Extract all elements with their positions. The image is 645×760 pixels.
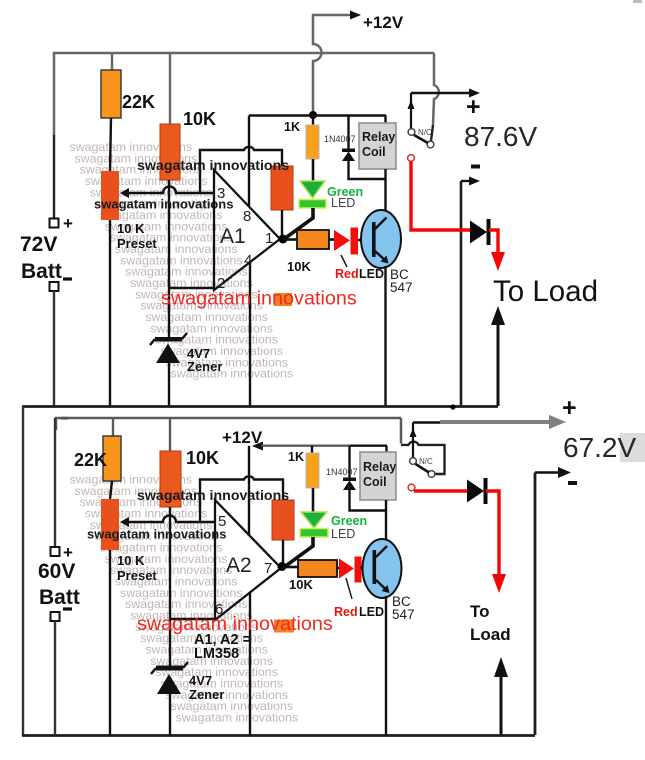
diode series (top) <box>470 221 487 244</box>
resistor 10K vertical (top) <box>160 124 180 180</box>
svg-text:swagatam innovations: swagatam innovations <box>137 158 289 174</box>
load return up arrow (bottom) <box>500 676 503 735</box>
svg-text:+: + <box>562 394 577 422</box>
svg-text:547: 547 <box>392 607 415 622</box>
N/C contact circle <box>408 129 415 136</box>
wire +12V feed with hop over supply rail <box>313 15 352 111</box>
wire minus output down to ground rail <box>460 181 463 406</box>
wire op-amp A1 pin 8 <box>248 116 250 207</box>
resistor 22K (bottom) lead <box>112 418 114 436</box>
svg-text:N/C: N/C <box>418 128 432 137</box>
svg-text:swagatam innovations: swagatam innovations <box>137 488 289 504</box>
svg-text:A1: A1 <box>220 225 246 248</box>
bottom box left edge <box>22 406 24 736</box>
relay coil RL1 (top) <box>384 116 386 124</box>
svg-text:Coil: Coil <box>363 475 387 489</box>
svg-text:Red: Red <box>335 267 359 281</box>
wire emitter to ground rail (bottom) <box>385 596 387 735</box>
resistor 10K base (bottom) <box>282 566 298 569</box>
wire op-amp A1 pin 4 to ground <box>249 262 251 406</box>
minus output (bottom) <box>535 471 559 474</box>
+12V feed arrow (bottom, pointing left) <box>252 442 263 451</box>
svg-text:To Load: To Load <box>493 275 598 308</box>
svg-text:LM358: LM358 <box>194 646 239 662</box>
resistor 10K vertical (top) lead <box>169 53 171 124</box>
wire preset bottom to ground rail <box>109 220 111 406</box>
resistor 1K (top) <box>312 115 314 125</box>
load return up arrow (top) <box>497 324 500 406</box>
ground rail (top circuit) <box>22 405 498 408</box>
wire relay pole from batt+ with hop <box>433 53 439 125</box>
transistor Q1 BC547 <box>361 210 401 268</box>
svg-text:22K: 22K <box>74 450 107 470</box>
relay armature (bottom) <box>416 464 430 473</box>
svg-text:Batt: Batt <box>21 260 62 283</box>
svg-text:10K: 10K <box>287 259 311 274</box>
node: op-amp A2 output junction <box>278 562 287 571</box>
op-amp A2 <box>215 500 281 620</box>
svg-text:Relay: Relay <box>362 130 395 144</box>
grey box behind 67.2V <box>620 433 645 462</box>
wire minus output down to ground rail (bottom) <box>534 473 537 736</box>
resistor 22K (top) <box>101 70 121 118</box>
wire N/C contact up to + output <box>410 93 412 129</box>
svg-text:To: To <box>470 602 490 621</box>
wire pin2 to reference node <box>169 287 214 289</box>
wire + output (bottom) grey arrow <box>413 421 440 423</box>
svg-text:10K: 10K <box>289 577 313 592</box>
svg-text:Preset: Preset <box>117 568 157 583</box>
svg-text:1K: 1K <box>288 450 304 464</box>
wire relay pole (bottom) from batt+ with hop <box>400 418 403 444</box>
svg-text:10K: 10K <box>186 448 219 468</box>
pointer line to Red LED label (bottom) <box>346 578 352 599</box>
svg-text:87.6V: 87.6V <box>464 121 537 152</box>
zener diode 4V7 (bottom) <box>151 662 188 735</box>
preset 10K (top) <box>101 171 119 220</box>
wire batt2 + top edge <box>56 418 401 430</box>
battery B2 + terminal <box>51 547 60 556</box>
svg-text:swagatam innovations: swagatam innovations <box>176 710 299 724</box>
wire pin5 to preset wiper with hop <box>128 516 215 523</box>
svg-text:swagatam innovations: swagatam innovations <box>87 527 226 542</box>
svg-text:Coil: Coil <box>362 145 386 159</box>
wire pin3 to preset wiper with hop <box>128 187 214 194</box>
orange highlight block (top) <box>274 293 292 306</box>
N/C contact circle (bottom) <box>410 458 417 465</box>
battery B1 - terminal <box>50 282 59 291</box>
transistor Q2 BC547 <box>363 539 402 598</box>
resistor feedback (top) <box>271 166 293 210</box>
svg-text:swagatam innovations: swagatam innovations <box>94 197 233 212</box>
svg-text:+: + <box>466 93 481 121</box>
svg-text:10 K: 10 K <box>117 221 145 236</box>
preset 10K (bottom) <box>101 499 119 550</box>
resistor feedback (bottom) <box>272 500 294 540</box>
svg-text:7: 7 <box>264 560 272 577</box>
wire N/O to load (red, top) <box>411 162 470 231</box>
svg-text:22K: 22K <box>122 92 155 112</box>
svg-text:Zener: Zener <box>189 687 224 702</box>
svg-text:8: 8 <box>243 208 251 225</box>
svg-text:547: 547 <box>390 280 413 295</box>
svg-text:Preset: Preset <box>117 236 157 251</box>
battery B2 wire <box>54 418 56 547</box>
wire pin6 to reference node <box>170 618 215 620</box>
svg-text:LED: LED <box>359 267 384 281</box>
LED red (top) <box>334 230 350 251</box>
svg-text:1N4007: 1N4007 <box>326 467 358 477</box>
N/O contact circle (bottom) <box>408 484 415 491</box>
resistor 22K (bottom) <box>103 436 121 481</box>
relay pole contact circle <box>427 141 434 148</box>
svg-text:Load: Load <box>470 625 511 644</box>
svg-text:Batt: Batt <box>39 586 80 609</box>
svg-text:Relay: Relay <box>363 460 396 474</box>
wire emitter to ground rail <box>384 266 386 406</box>
wire top supply rail (72V batt +) <box>54 53 434 135</box>
wire feedback (bottom) with hop <box>200 476 283 522</box>
diode series (bottom) <box>467 480 484 503</box>
svg-text:A2: A2 <box>226 554 252 577</box>
N/O contact circle <box>408 155 415 162</box>
battery B1 + terminal <box>50 219 59 228</box>
wire feedback resistor to output node <box>281 210 283 237</box>
wire 10K to zener (ref divider) <box>168 180 170 337</box>
tiny grey mark top right <box>633 0 642 3</box>
diode 1N4007 (bottom) <box>343 446 386 511</box>
wire op-amp A2 pin 8 <box>248 446 250 536</box>
svg-text:Red: Red <box>334 605 358 619</box>
svg-text:Green: Green <box>331 514 367 528</box>
svg-text:LED: LED <box>331 196 355 210</box>
minus output (top) <box>471 165 480 169</box>
relay pole contact circle (bottom) <box>428 471 435 478</box>
node: 1K/relay supply junction <box>309 111 317 119</box>
orange highlight block (bottom) <box>274 620 294 633</box>
svg-text:10 K: 10 K <box>117 553 145 568</box>
resistor 10K vertical (bottom) <box>160 451 181 507</box>
wire feedback with hop over pin8 wire <box>200 147 282 193</box>
svg-text:72V: 72V <box>20 233 57 256</box>
node: op-amp A1 output junction <box>279 235 288 244</box>
wire + output (top) with arrow <box>411 92 471 94</box>
battery B2 - terminal <box>51 612 60 621</box>
pointer line to Red LED label <box>341 255 347 267</box>
svg-text:1: 1 <box>265 230 273 247</box>
svg-text:1K: 1K <box>284 120 300 134</box>
svg-text:10K: 10K <box>183 109 216 129</box>
+12V arrowhead <box>350 11 361 20</box>
wire +12V horizontal to op-amp pin8 and relay <box>249 114 386 116</box>
wire op-amp A2 pin 4 to ground <box>249 592 251 735</box>
resistor 22K (top) lead <box>111 53 113 70</box>
wire N/O to load (red, bottom) <box>414 489 467 492</box>
relay armature (top) <box>414 135 428 143</box>
resistor 10K base (top) <box>283 238 297 241</box>
svg-text:67.2V: 67.2V <box>563 432 636 463</box>
ground rail (bottom circuit) <box>22 734 535 737</box>
svg-text:swagatam innovations: swagatam innovations <box>161 288 357 310</box>
relay coil RL2 (bottom) <box>385 446 387 455</box>
LED green (bottom) <box>285 488 328 567</box>
wire N/C contact up to + output (bottom) <box>412 423 414 458</box>
LED green (top) <box>284 159 326 239</box>
svg-text:+12V: +12V <box>363 13 404 32</box>
resistor 10K vertical (bottom) lead <box>169 418 171 451</box>
svg-text:1N4007: 1N4007 <box>324 134 356 144</box>
svg-text:LED: LED <box>359 605 384 619</box>
svg-text:60V: 60V <box>38 560 75 583</box>
svg-text:LED: LED <box>331 527 355 541</box>
svg-text:Zener: Zener <box>187 359 222 374</box>
wire battery minus down <box>53 291 55 406</box>
resistor 1K (bottom) <box>311 446 313 453</box>
preset wiper arrowhead <box>120 188 129 198</box>
LED red (bottom) <box>339 559 354 579</box>
zener diode 4V7 (top) <box>150 333 187 406</box>
svg-text:N/C: N/C <box>419 457 433 466</box>
diode 1N4007 (top) <box>342 116 386 180</box>
svg-text:+: + <box>63 214 73 233</box>
op-amp A1 <box>214 170 280 290</box>
svg-text:4V7: 4V7 <box>189 673 212 688</box>
